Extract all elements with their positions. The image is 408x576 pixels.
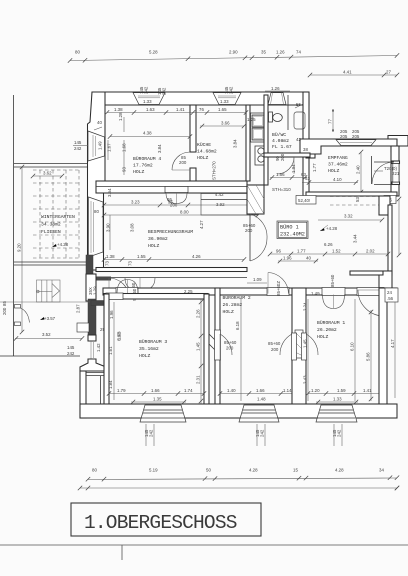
BESPRECHUNGSRAUM bottom wall	[96, 268, 247, 272]
window W4 empfang top wall	[336, 140, 376, 146]
svg-text:1.84: 1.84	[108, 380, 113, 389]
svg-text:5.86: 5.86	[366, 352, 371, 361]
svg-text:1.41: 1.41	[176, 107, 185, 112]
pier right of hall	[379, 196, 390, 215]
EMPFANG bottom wall	[306, 192, 397, 196]
svg-text:76: 76	[199, 107, 204, 112]
svg-text:+4.28: +4.28	[326, 226, 338, 231]
svg-text:1.28: 1.28	[118, 112, 123, 121]
svg-text:3.54: 3.54	[107, 188, 112, 197]
svg-text:HOLZ: HOLZ	[139, 353, 150, 359]
svg-text:232.40M2: 232.40M2	[280, 232, 305, 238]
title box 1.OBERGESCHOSS	[71, 503, 261, 536]
svg-text:1.66: 1.66	[276, 172, 285, 177]
solid pier left entrance	[86, 255, 93, 275]
svg-text:242: 242	[149, 429, 154, 437]
neighbor boundary line bottom-left	[0, 355, 80, 357]
bay window sill B2	[239, 405, 279, 422]
window W1 top wall with reveal	[133, 93, 165, 105]
svg-text:17.76m2: 17.76m2	[133, 163, 153, 169]
svg-text:1.55: 1.55	[137, 254, 146, 259]
svg-text:1.61: 1.61	[108, 346, 113, 355]
svg-text:5.19: 5.19	[149, 468, 158, 473]
svg-text:80: 80	[75, 50, 80, 55]
wall under BUERORAUM4/KUECHE	[96, 181, 247, 193]
svg-text:4.38: 4.38	[143, 131, 152, 136]
dim 2.40 vertical in empfang	[360, 152, 362, 192]
svg-text:37.46m2: 37.46m2	[328, 162, 348, 168]
svg-text:1.49: 1.49	[98, 141, 103, 150]
svg-text:4.10: 4.10	[333, 177, 342, 182]
svg-text:26.28m2: 26.28m2	[223, 302, 243, 308]
svg-text:2.25: 2.25	[184, 289, 193, 294]
svg-text:4.28: 4.28	[249, 468, 258, 473]
wall segment WC to hall	[247, 185, 264, 192]
landing line below stairs	[0, 301, 90, 303]
bay window sill B1	[316, 405, 357, 422]
solid pier left lower	[88, 299, 96, 335]
outer wall upper wing top	[92, 92, 309, 105]
svg-text:+3.57: +3.57	[44, 316, 56, 321]
elevation mark +4.28 hall	[320, 228, 325, 231]
svg-text:42: 42	[296, 137, 301, 142]
svg-text:40: 40	[306, 256, 311, 261]
svg-text:200: 200	[280, 153, 285, 161]
svg-text:242: 242	[337, 429, 342, 437]
door to B1 opening	[322, 288, 345, 296]
shaft B3/B2	[215, 288, 220, 407]
svg-text:2.26: 2.26	[196, 309, 201, 318]
svg-text:BÜRO 1: BÜRO 1	[280, 224, 299, 231]
svg-text:4.26: 4.26	[192, 254, 201, 259]
svg-text:9.20: 9.20	[17, 243, 22, 252]
svg-text:3.32: 3.32	[344, 214, 353, 219]
svg-text:200: 200	[226, 346, 234, 351]
EMPFANG wing top wall	[300, 139, 397, 154]
B3 bottom dim chain	[109, 393, 204, 395]
svg-text:1.OBERGESCHOSS: 1.OBERGESCHOSS	[84, 512, 237, 534]
svg-text:3.52: 3.52	[42, 332, 51, 337]
hall dims 3.32 3.44 6.26	[318, 219, 382, 221]
svg-text:1.65: 1.65	[218, 107, 227, 112]
double door bespr to hall	[249, 214, 251, 261]
svg-text:200: 200	[271, 347, 279, 352]
svg-text:1.66: 1.66	[151, 388, 160, 393]
svg-text:1.26: 1.26	[276, 50, 285, 55]
callout box 24/56	[385, 288, 398, 302]
svg-text:74: 74	[296, 50, 301, 55]
BUERORAUM 4 dims	[110, 136, 190, 138]
svg-text:27: 27	[386, 69, 391, 74]
door BESPRECHUNGSRAUM top arc 95	[165, 187, 188, 193]
svg-text:1.63: 1.63	[146, 107, 155, 112]
BUERO1 bottom right wall	[350, 271, 392, 275]
EMPFANG right wall	[391, 146, 399, 196]
BUERO1 right wall	[388, 205, 392, 271]
svg-text:1.29: 1.29	[93, 286, 98, 295]
stair walk line with circle and arrow	[37, 291, 53, 293]
svg-text:1.09: 1.09	[253, 277, 262, 282]
svg-text:14.68m2: 14.68m2	[197, 149, 217, 155]
kitchen fixtures sink block	[251, 113, 266, 142]
svg-text:1.33: 1.33	[143, 99, 152, 104]
dim 3.52	[15, 338, 82, 340]
stairs	[37, 280, 61, 302]
svg-text:3.92: 3.92	[216, 202, 225, 207]
svg-text:HOLZ: HOLZ	[133, 169, 144, 175]
svg-text:8.00: 8.00	[180, 210, 189, 215]
svg-text:15: 15	[293, 468, 298, 473]
svg-text:1.96: 1.96	[283, 256, 292, 261]
svg-text:HOLZ: HOLZ	[328, 168, 339, 174]
svg-text:BÜRORAUM 2: BÜRORAUM 2	[223, 294, 251, 301]
svg-text:BÜ/WC: BÜ/WC	[272, 131, 286, 138]
svg-text:1.49: 1.49	[311, 291, 320, 296]
svg-text:205: 205	[352, 134, 360, 139]
svg-text:63: 63	[305, 176, 310, 181]
wintergarten top wall lines	[14, 163, 88, 165]
left outer wall lower with window	[88, 335, 96, 341]
svg-text:1.42: 1.42	[96, 343, 101, 352]
svg-text:BESPRECHUNGSRAUM: BESPRECHUNGSRAUM	[148, 229, 193, 235]
window W2 top wall with reveal	[213, 93, 241, 105]
french window left wall bespr	[89, 197, 104, 257]
svg-text:1.74: 1.74	[184, 388, 193, 393]
svg-text:1.33: 1.33	[220, 99, 229, 104]
kitchen right wall	[246, 105, 250, 181]
svg-text:4.27: 4.27	[199, 220, 204, 229]
left dim 9.20 vertical	[21, 167, 23, 332]
svg-text:+4.28: +4.28	[57, 242, 69, 247]
svg-text:85+60Z: 85+60Z	[276, 281, 281, 296]
door to B2 opening	[267, 288, 289, 296]
svg-text:4.08m2: 4.08m2	[272, 138, 289, 144]
svg-text:4.41: 4.41	[343, 69, 352, 74]
svg-text:85+60: 85+60	[268, 341, 281, 346]
svg-text:4.17: 4.17	[390, 339, 395, 348]
svg-text:HOLZ: HOLZ	[197, 155, 208, 161]
callout box 46	[384, 196, 396, 204]
svg-text:1.40: 1.40	[227, 388, 236, 393]
svg-text:BÜRORAUM 4: BÜRORAUM 4	[133, 155, 161, 162]
svg-text:3.66: 3.66	[221, 121, 230, 126]
svg-text:200: 200	[245, 228, 253, 233]
french door right wall with swing arc	[392, 161, 400, 164]
svg-text:145: 145	[74, 140, 82, 145]
svg-text:35.16m2: 35.16m2	[139, 346, 159, 352]
svg-text:1.41: 1.41	[363, 388, 372, 393]
kitchen fixtures lower block	[255, 146, 268, 165]
top-right corner step	[388, 136, 408, 147]
hall dim chain 96/1.77/1.52/2.02	[270, 253, 388, 255]
conference table	[201, 194, 258, 216]
svg-text:242: 242	[67, 351, 75, 356]
svg-text:KÜCHE: KÜCHE	[197, 141, 211, 148]
svg-text:242: 242	[162, 87, 167, 95]
left porch wall going down	[80, 371, 86, 418]
svg-text:1.96: 1.96	[109, 310, 114, 319]
svg-text:1.26: 1.26	[271, 86, 280, 91]
svg-text:96: 96	[276, 248, 281, 253]
B2 bottom dim chain	[220, 393, 294, 395]
svg-text:50: 50	[206, 468, 211, 473]
bespr bottom dim chain	[104, 259, 244, 261]
room B3 walls	[104, 294, 208, 300]
bottom dim chain 80/5.19/50/4.28/15/4.28/34	[88, 478, 397, 480]
svg-text:242: 242	[74, 146, 82, 151]
bottom dim chain 2	[80, 487, 397, 489]
svg-text:1.77: 1.77	[297, 248, 306, 253]
svg-text:FL 1.67: FL 1.67	[272, 144, 292, 150]
B1 right wall	[379, 288, 387, 407]
WC bottom wall	[264, 153, 310, 157]
svg-text:242: 242	[144, 86, 149, 94]
door B1 left wall	[302, 333, 307, 360]
svg-text:205: 205	[340, 134, 348, 139]
svg-text:1.20: 1.20	[311, 388, 320, 393]
bay window sill B3	[140, 405, 186, 422]
svg-text:3.08: 3.08	[130, 223, 135, 232]
door to B3 opening	[116, 288, 138, 296]
B1 bottom dim chain	[308, 393, 381, 395]
corridor head line with jog	[95, 277, 111, 281]
wall between BUERORAUM4 and KUECHE	[190, 105, 196, 152]
svg-text:3.62: 3.62	[43, 171, 52, 176]
wintergarten bottom wall	[14, 261, 90, 263]
double curtain door corridor to B3 zone	[125, 278, 140, 291]
corridor bottom wall / rooms top wall	[103, 288, 397, 295]
B1 big door arc	[357, 288, 384, 296]
svg-text:1.52: 1.52	[332, 248, 341, 253]
svg-text:HOLZ: HOLZ	[148, 243, 159, 249]
WC washbasin	[294, 112, 305, 129]
svg-text:73: 73	[128, 261, 133, 266]
svg-text:35: 35	[261, 50, 266, 55]
bespr top dim chain 3.23/95/4.42	[104, 204, 260, 206]
svg-text:1.94: 1.94	[291, 164, 296, 173]
svg-text:HOLZ: HOLZ	[223, 309, 234, 315]
svg-text:1.45: 1.45	[303, 339, 308, 348]
top dimension chain 80/5.28/2.90/35/1.26/74	[70, 56, 397, 61]
svg-text:2.87: 2.87	[76, 304, 81, 313]
svg-text:1.77: 1.77	[312, 163, 317, 172]
svg-text:52,40!: 52,40!	[298, 198, 310, 203]
svg-text:EMPFANG: EMPFANG	[328, 155, 348, 161]
svg-text:6.18: 6.18	[235, 321, 240, 330]
svg-text:145: 145	[67, 345, 75, 350]
svg-text:3.23: 3.23	[131, 200, 140, 205]
svg-text:200: 200	[2, 307, 7, 315]
svg-text:26.20m2: 26.20m2	[317, 327, 337, 333]
svg-text:2.02: 2.02	[366, 248, 375, 253]
svg-text:BÜRORAUM 1: BÜRORAUM 1	[317, 319, 345, 326]
right wall upper wing / empfang left wall	[303, 92, 309, 196]
small door arc B3 top wall	[106, 289, 123, 299]
svg-text:6.63: 6.63	[117, 332, 122, 341]
interior dim chain 1.38/1.63/1.41/.76/1.65	[107, 112, 246, 114]
funnel window slit top wall	[268, 93, 286, 105]
svg-text:3.44: 3.44	[353, 234, 358, 243]
svg-text:242: 242	[260, 429, 265, 437]
WC toilet	[269, 112, 273, 122]
svg-text:1.38: 1.38	[114, 107, 123, 112]
label +3.57	[40, 317, 45, 320]
svg-text:80: 80	[92, 468, 97, 473]
svg-text:24: 24	[387, 290, 392, 295]
callout box 52.40	[296, 196, 316, 205]
dim 77 vertical right of WC	[332, 109, 334, 132]
svg-text:3.84: 3.84	[233, 139, 238, 148]
door B2 left wall	[215, 330, 221, 360]
svg-text:1.25: 1.25	[247, 117, 256, 122]
wintergarten dim 3.62	[33, 175, 62, 177]
dashed beam lines hall	[330, 196, 383, 198]
label box BUERO 1 232.40M2	[277, 221, 308, 239]
svg-text:HOLZ: HOLZ	[317, 334, 328, 340]
bottom frame line	[0, 544, 408, 546]
svg-text:1.45: 1.45	[196, 342, 201, 351]
svg-text:85: 85	[2, 301, 7, 306]
svg-text:1.66: 1.66	[256, 388, 265, 393]
svg-text:36.90m2: 36.90m2	[148, 236, 168, 242]
svg-text:77: 77	[328, 119, 333, 124]
svg-text:2.24: 2.24	[303, 302, 308, 311]
svg-text:1.35: 1.35	[153, 397, 162, 402]
bottom outer wall	[80, 404, 397, 418]
entrance door arcs	[109, 278, 129, 298]
svg-text:85+60: 85+60	[330, 274, 335, 287]
svg-text:3.84: 3.84	[157, 144, 162, 153]
door arc left boundary	[16, 307, 30, 323]
frame tick	[121, 545, 123, 560]
svg-text:85+60: 85+60	[224, 340, 237, 345]
svg-text:6.10: 6.10	[350, 342, 355, 351]
window left wall W3	[88, 131, 105, 161]
pier between bespr and hall hatched	[247, 185, 264, 214]
svg-text:95: 95	[168, 200, 173, 205]
svg-text:2.40: 2.40	[356, 165, 361, 174]
left boundary line	[13, 95, 15, 356]
svg-text:34.38m2: 34.38m2	[41, 222, 61, 228]
WC partition wall	[287, 95, 289, 130]
door B2 right wall	[292, 333, 297, 360]
svg-text:6.26: 6.26	[324, 242, 333, 247]
svg-text:5.28: 5.28	[149, 50, 158, 55]
svg-text:200: 200	[179, 160, 187, 165]
svg-text:WINTERGARTEN: WINTERGARTEN	[41, 214, 75, 220]
elevation mark +4.28 wintergarten	[52, 244, 57, 247]
svg-text:STH=310: STH=310	[272, 187, 291, 192]
svg-text:FLIESEN: FLIESEN	[41, 229, 61, 235]
svg-text:242: 242	[229, 86, 234, 94]
svg-text:4.42: 4.42	[215, 192, 224, 197]
WC door to hall arc 90/200	[277, 157, 294, 174]
svg-text:1.67: 1.67	[107, 143, 112, 152]
svg-text:2.43: 2.43	[303, 375, 308, 384]
svg-text:221: 221	[392, 171, 400, 176]
svg-text:80: 80	[94, 209, 99, 214]
svg-text:40: 40	[97, 120, 102, 125]
svg-text:1.59: 1.59	[337, 388, 346, 393]
svg-text:1.14: 1.14	[283, 388, 292, 393]
svg-text:2.90: 2.90	[229, 50, 238, 55]
svg-text:STH=270: STH=270	[212, 161, 217, 180]
svg-text:.56: .56	[387, 296, 394, 301]
WC left wall	[264, 95, 268, 157]
left outer wall upper part	[88, 92, 106, 270]
door KUECHE with arc 85/200	[172, 152, 190, 170]
svg-text:38: 38	[303, 147, 308, 152]
svg-text:1.79: 1.79	[117, 388, 126, 393]
svg-text:1.33: 1.33	[333, 397, 342, 402]
svg-text:BÜRORAUM 3: BÜRORAUM 3	[139, 338, 167, 345]
svg-text:2.31: 2.31	[196, 375, 201, 384]
svg-text:34: 34	[379, 468, 384, 473]
svg-text:1.48: 1.48	[257, 397, 266, 402]
wintergarten dashed grid	[39, 170, 41, 258]
svg-text:73: 73	[105, 261, 110, 266]
wall B2/B1 with pier	[292, 288, 306, 407]
svg-text:1.38: 1.38	[106, 254, 115, 259]
svg-text:4.28: 4.28	[335, 468, 344, 473]
secondary top dimension chain 4.41/27	[310, 74, 397, 76]
svg-text:53: 53	[355, 197, 360, 202]
